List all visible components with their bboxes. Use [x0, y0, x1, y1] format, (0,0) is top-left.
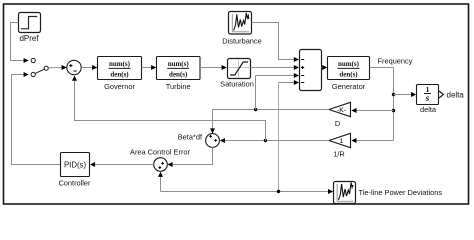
- svg-text:Beta*df: Beta*df: [178, 133, 203, 142]
- sum block S2 (generator swing sum, - + - -): [300, 50, 322, 91]
- transfer function block Turbine: [157, 57, 201, 92]
- wire dPref to switch upper input: [11, 23, 29, 64]
- wire frequency to gain 1/R input: [351, 138, 393, 143]
- wire sum S2 to Generator: [322, 65, 328, 70]
- wire sum S1 to Governor: [81, 65, 97, 70]
- gain block 1/R (1): [329, 133, 351, 158]
- svg-text:Area Control Error: Area Control Error: [130, 148, 191, 157]
- wire riser to generator sum port 4: [279, 80, 300, 85]
- svg-text:num(s): num(s): [168, 60, 190, 68]
- wire droop feedback to sum S1 bottom: [72, 76, 266, 141]
- svg-text:Tie-line Power Deviations: Tie-line Power Deviations: [359, 188, 443, 197]
- step source dPref: [19, 13, 41, 44]
- svg-text:den(s): den(s): [110, 71, 129, 79]
- wire switch to sum S1: [48, 65, 67, 70]
- wire PID output to switch lower input: [12, 72, 61, 165]
- wire Beta*df to Area Control Error sum: [167, 147, 212, 167]
- transfer function block Generator: [328, 57, 370, 91]
- wire frequency to integrator 1/s: [394, 92, 417, 97]
- svg-text:PID(s): PID(s): [64, 160, 86, 169]
- svg-text:D: D: [335, 119, 340, 128]
- wire Governor to Turbine: [142, 65, 157, 70]
- svg-text:s: s: [425, 94, 430, 104]
- wire tie-line net to ACE sum bottom: [158, 172, 163, 192]
- svg-text:den(s): den(s): [169, 71, 188, 79]
- integrator block 1/s (delta): [417, 85, 439, 115]
- wire ACE sum to PID controller: [90, 162, 154, 167]
- manual switch SW1: [31, 58, 48, 76]
- sum junction Area Control Error (+ +): [154, 158, 168, 172]
- scope source block Disturbance: [222, 12, 261, 46]
- wire Generator output to frequency net: [370, 68, 394, 141]
- wire frequency to gain D input: [351, 108, 393, 113]
- sum junction Beta*df (+ +): [206, 134, 220, 148]
- PID controller block PID(s): [58, 153, 91, 188]
- svg-text:dPref: dPref: [19, 34, 39, 43]
- svg-text:1: 1: [340, 138, 344, 145]
- transfer function block Governor: [98, 57, 142, 92]
- wire tie-line vertical riser: [278, 83, 280, 192]
- svg-text:1: 1: [426, 85, 430, 94]
- svg-text:den(s): den(s): [339, 71, 358, 79]
- junction on gain 1/R output: [264, 139, 267, 142]
- svg-text:num(s): num(s): [109, 60, 131, 68]
- svg-text:Frequency: Frequency: [378, 57, 413, 66]
- saturation block Saturation: [220, 59, 254, 89]
- svg-text:1/R: 1/R: [333, 149, 345, 158]
- junction frequency to gain D: [392, 109, 395, 112]
- svg-text:delta: delta: [447, 90, 465, 99]
- gain block D (-K-): [329, 102, 351, 128]
- svg-text:Governor: Governor: [104, 82, 135, 91]
- svg-text:Disturbance: Disturbance: [222, 37, 261, 46]
- svg-text:-K-: -K-: [337, 107, 346, 114]
- junction tie-line to generator sum port 4: [277, 190, 280, 193]
- junction on gain D output: [254, 108, 257, 111]
- svg-text:Saturation: Saturation: [220, 80, 254, 89]
- wire Disturbance to generator sum port 1: [252, 23, 300, 63]
- junction frequency to integrator: [392, 93, 395, 96]
- wire Saturation to generator sum port 2: [251, 65, 300, 70]
- svg-text:num(s): num(s): [338, 60, 360, 68]
- wire tie-line horizontal run to scope: [161, 189, 334, 194]
- wire gain D output to Beta*df sum top: [210, 110, 329, 134]
- svg-text:delta: delta: [420, 105, 437, 114]
- sum junction S1 (+ -): [67, 60, 81, 74]
- wire Turbine to Saturation: [200, 65, 227, 70]
- wire gain 1/R output to Beta*df sum right: [220, 138, 329, 143]
- svg-text:Generator: Generator: [332, 82, 366, 91]
- svg-text:Turbine: Turbine: [166, 82, 191, 91]
- output port chevron of integrator: [439, 91, 443, 98]
- svg-text:Controller: Controller: [58, 179, 91, 188]
- wire D branch to generator sum port 3: [256, 73, 300, 110]
- scope block Tie-line Power Deviations: [334, 182, 356, 204]
